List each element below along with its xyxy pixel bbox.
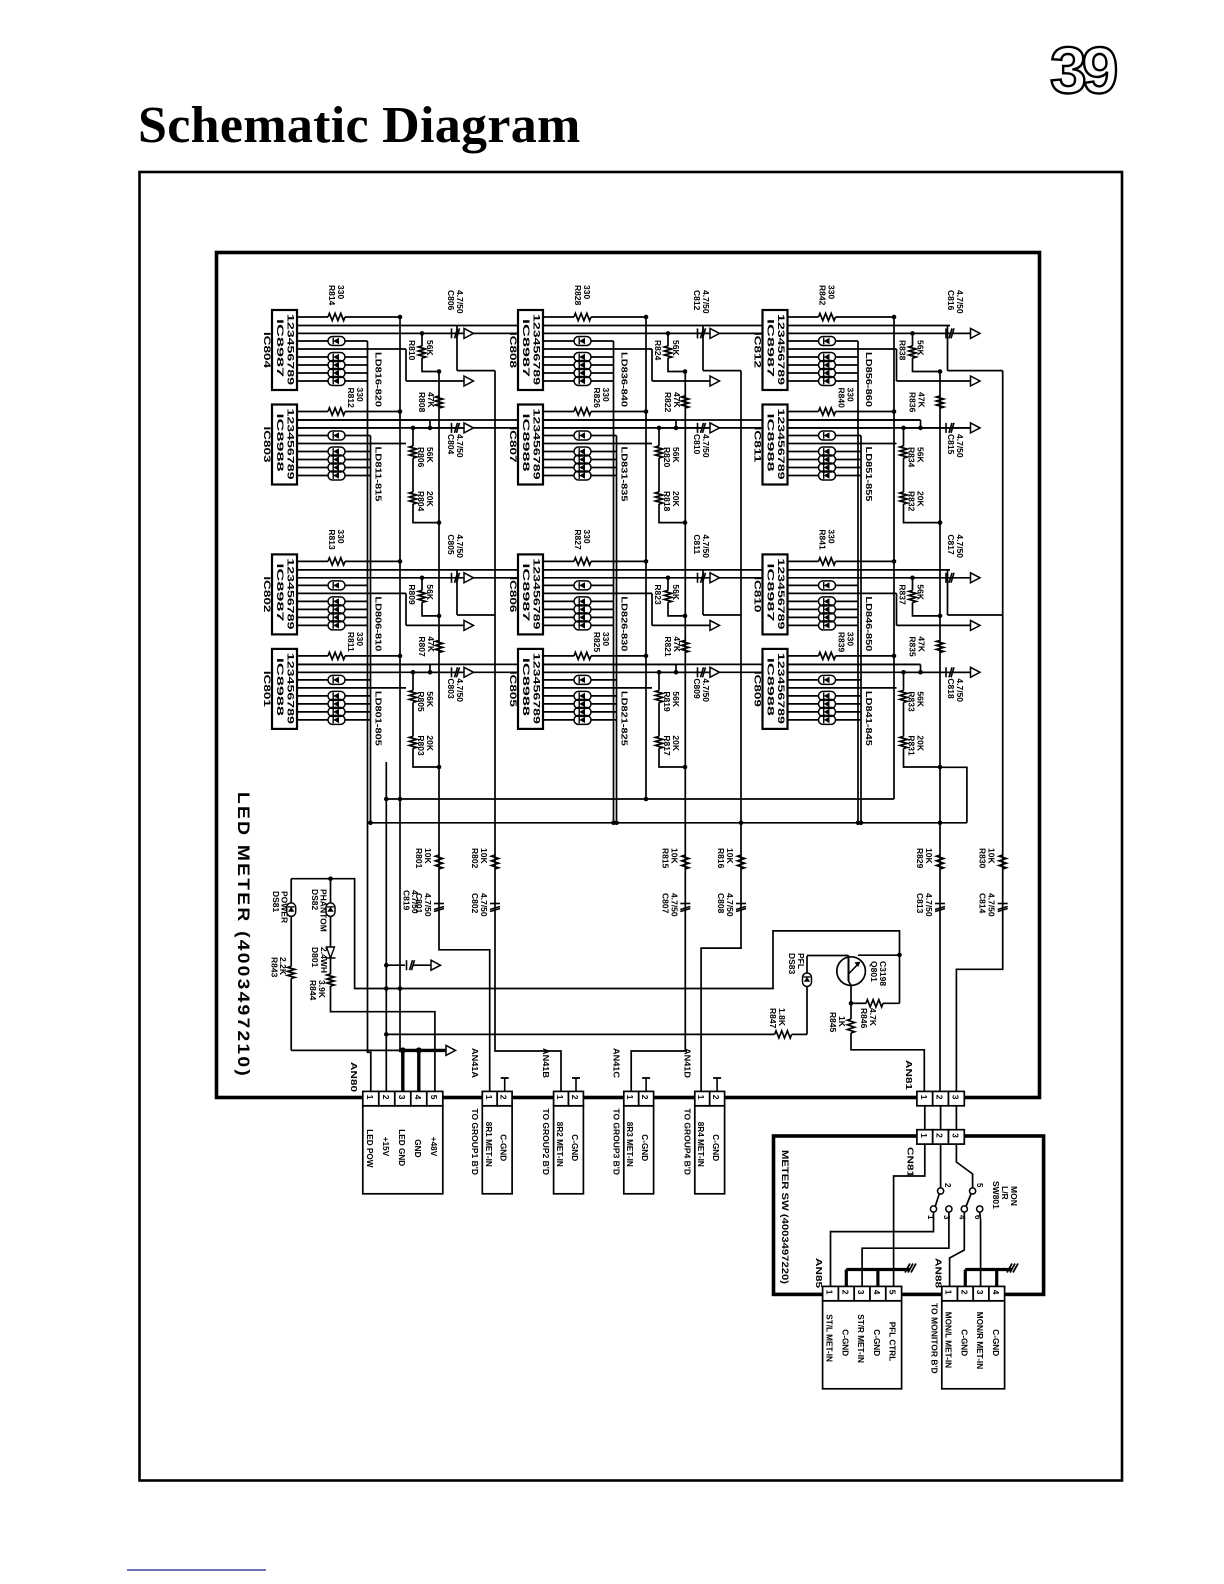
- wire pin2 riser to right bus: [702, 326, 704, 371]
- wire arrow stub mid: [405, 593, 407, 625]
- IC IC810: [753, 554, 788, 634]
- svg-text:D801: D801: [310, 947, 320, 968]
- wire pin3 bottom IC: [297, 427, 400, 429]
- svg-text:C812: C812: [692, 290, 702, 311]
- resistor R808 47K: [435, 396, 442, 408]
- wire pin1 IC806 to bus: [591, 560, 646, 562]
- no-connect stub pin2: [575, 1078, 577, 1091]
- svg-text:2.4WH: 2.4WH: [319, 947, 329, 973]
- svg-text:123456789: 123456789: [776, 653, 786, 724]
- svg-text:123456789: 123456789: [286, 653, 296, 724]
- svg-text:1: 1: [365, 1095, 375, 1100]
- wire pin5: [297, 443, 406, 445]
- resistor R814 330: [297, 316, 328, 318]
- resistor R809 56K: [420, 576, 425, 581]
- wire pin5: [297, 348, 406, 350]
- svg-text:1: 1: [919, 1133, 929, 1138]
- LED LD816: [297, 340, 328, 342]
- svg-text:47K: 47K: [672, 392, 682, 408]
- svg-text:C817: C817: [946, 534, 956, 555]
- resistor R837 56K: [910, 576, 915, 581]
- connector AN85 pins: [823, 1286, 839, 1300]
- svg-text:IC810: IC810: [753, 576, 763, 612]
- IC IC809: [753, 649, 788, 729]
- svg-text:+48V: +48V: [429, 1137, 438, 1157]
- svg-text:TO MONITOR B'D: TO MONITOR B'D: [929, 1303, 939, 1374]
- svg-text:10K: 10K: [924, 848, 934, 864]
- svg-text:56K: 56K: [916, 691, 926, 707]
- svg-text:MON/L MET-IN: MON/L MET-IN: [944, 1312, 953, 1368]
- svg-text:ST/L MET-IN: ST/L MET-IN: [825, 1314, 834, 1362]
- IC IC808: [508, 310, 543, 390]
- resistor R829 10K: [936, 855, 943, 869]
- resistor R841 330: [788, 560, 819, 562]
- capacitor C808 4.7/50: [736, 903, 746, 905]
- svg-text:LD801-805: LD801-805: [374, 691, 384, 746]
- wire bus B col2 to AN41C: [631, 372, 685, 1092]
- svg-text:4.7/50: 4.7/50: [701, 678, 711, 702]
- svg-text:1: 1: [625, 1095, 635, 1100]
- svg-text:3: 3: [397, 1095, 407, 1100]
- wire pin3 bottom IC: [788, 427, 891, 429]
- svg-text:2: 2: [943, 1183, 952, 1188]
- svg-text:R840: R840: [837, 388, 847, 409]
- LED LD826: [543, 584, 574, 586]
- svg-text:C818: C818: [946, 678, 956, 699]
- wire bus B col3 to AN81 pin2: [939, 372, 941, 1092]
- svg-text:C-GND: C-GND: [640, 1134, 649, 1161]
- svg-text:330: 330: [827, 285, 837, 299]
- resistor R825 330: [543, 655, 574, 657]
- LED stack LD831-835: [543, 451, 574, 453]
- svg-text:LD806-810: LD806-810: [374, 596, 384, 651]
- svg-text:123456789: 123456789: [776, 558, 786, 629]
- svg-text:IC801: IC801: [262, 671, 272, 707]
- svg-text:DS82: DS82: [310, 889, 320, 911]
- diode D801 zener 2.4WH: [330, 916, 332, 947]
- svg-text:C-GND: C-GND: [499, 1134, 508, 1161]
- resistor R816 10K: [737, 855, 744, 869]
- resistor R827 330: [543, 560, 574, 562]
- wire bus C col2 to AN41D: [701, 371, 741, 1092]
- svg-text:LED GND: LED GND: [397, 1129, 406, 1166]
- resistor R806 56K: [411, 426, 416, 431]
- capacitor C803 4.7/50: [451, 667, 453, 677]
- svg-text:LD846-850: LD846-850: [864, 596, 874, 651]
- resistor R803 20K: [412, 702, 414, 736]
- svg-text:R846: R846: [859, 1008, 869, 1029]
- svg-text:CN81: CN81: [906, 1147, 916, 1177]
- svg-text:20K: 20K: [671, 735, 681, 751]
- wire pin5: [543, 592, 652, 594]
- svg-text:LD836-840: LD836-840: [620, 352, 630, 407]
- svg-text:C815: C815: [946, 434, 956, 455]
- svg-text:Schematic Diagram: Schematic Diagram: [138, 97, 581, 154]
- svg-text:TO GROUP3 B'D: TO GROUP3 B'D: [611, 1108, 621, 1175]
- resistor R832 20K: [903, 458, 905, 492]
- wire bus2 horizontal: [368, 822, 967, 824]
- svg-text:R801: R801: [414, 848, 424, 869]
- svg-text:IC809: IC809: [753, 671, 763, 707]
- wire pin3 bottom IC: [543, 427, 646, 429]
- svg-text:AN88: AN88: [934, 1258, 944, 1288]
- svg-text:4: 4: [413, 1095, 423, 1100]
- wire mid vertical 386: [385, 762, 387, 1091]
- wire pin2 bus bottom ICs band1: [297, 419, 518, 421]
- capacitor C805 4.7/50: [451, 573, 453, 583]
- svg-text:330: 330: [601, 388, 611, 402]
- wire pin5: [543, 348, 652, 350]
- svg-text:3.9K: 3.9K: [317, 980, 327, 999]
- svg-text:C-GND: C-GND: [711, 1134, 720, 1161]
- LED DS81 POWER: [290, 879, 292, 903]
- wire CN81 pin3 to SW801: [956, 1144, 972, 1188]
- svg-text:PHANTOM: PHANTOM: [319, 889, 329, 932]
- svg-text:R824: R824: [653, 340, 663, 361]
- connector AN88 body: [942, 1301, 1005, 1389]
- IC IC812: [753, 310, 788, 390]
- resistor R823 56K: [666, 576, 671, 581]
- svg-text:2: 2: [570, 1095, 580, 1100]
- LED stack LD846-850: [788, 600, 819, 602]
- svg-text:R802: R802: [470, 848, 480, 869]
- svg-text:AN85: AN85: [814, 1258, 824, 1288]
- resistor R833 56K: [901, 670, 906, 675]
- capacitor C802 4.7/50: [490, 903, 500, 905]
- wire pin1 IC801 to bus: [345, 655, 400, 657]
- LED LD841: [788, 679, 819, 681]
- resistor R840 330: [788, 411, 819, 413]
- svg-text:IC804: IC804: [262, 332, 272, 368]
- LED stack LD806-810: [297, 600, 328, 602]
- resistor R815 10K: [682, 855, 689, 869]
- wire SW801-4 to AN88 pin1: [950, 1212, 965, 1286]
- svg-text:C813: C813: [915, 893, 925, 914]
- LED LD846: [788, 584, 819, 586]
- wire CN81 pin2 to SW801: [940, 1144, 942, 1188]
- svg-text:C3198: C3198: [878, 961, 888, 986]
- wire pin3 bottom IC: [788, 671, 891, 673]
- wire arrow stub mid: [405, 349, 407, 381]
- resistor R838 56K: [910, 331, 915, 336]
- resistor R826 330: [543, 411, 574, 413]
- svg-text:R823: R823: [653, 584, 663, 605]
- svg-text:8R2 MET-IN: 8R2 MET-IN: [555, 1122, 564, 1167]
- svg-text:56K: 56K: [671, 584, 681, 600]
- svg-text:20K: 20K: [425, 491, 435, 507]
- wire bus C col3 to AN81 pin3: [956, 371, 1002, 1092]
- svg-text:2: 2: [640, 1095, 650, 1100]
- svg-text:10K: 10K: [725, 848, 735, 864]
- LED stack LD821-825: [543, 695, 574, 697]
- wire pin1 IC812 to bus: [836, 316, 895, 318]
- svg-text:IC8988: IC8988: [275, 658, 285, 716]
- wire emitter to AN81 pin1: [851, 1033, 924, 1091]
- wire CN81 pin1 to AN85 pin5: [894, 1144, 925, 1286]
- svg-text:PFL: PFL: [796, 953, 806, 969]
- LED stack LD801-805: [297, 695, 328, 697]
- wire pin1 IC807 to bus: [591, 411, 646, 413]
- wire pin2 bus top ICs band1: [297, 325, 518, 327]
- wire pin1 IC809 to bus: [836, 655, 895, 657]
- svg-text:10K: 10K: [669, 848, 679, 864]
- IC IC802: [262, 554, 297, 634]
- svg-text:R816: R816: [716, 848, 726, 869]
- connector AN81 pins: [917, 1091, 933, 1105]
- svg-text:R810: R810: [407, 340, 417, 361]
- resistor R811 330: [297, 655, 328, 657]
- capacitor C814 4.7/50: [998, 903, 1008, 905]
- LED stack LD851-855: [788, 451, 819, 453]
- svg-text:4.7/50: 4.7/50: [955, 678, 965, 702]
- LED LD831: [543, 435, 574, 437]
- svg-text:4: 4: [872, 1290, 882, 1295]
- svg-text:R830: R830: [978, 848, 988, 869]
- svg-text:R821: R821: [663, 636, 673, 657]
- wire pin3 bus bottom ICs band1: [297, 427, 518, 429]
- LED stack LD856-860: [788, 356, 819, 358]
- svg-text:47K: 47K: [917, 392, 927, 408]
- LED LD836: [543, 340, 574, 342]
- svg-text:Q801: Q801: [869, 961, 879, 982]
- wire arrow stub mid: [896, 349, 898, 381]
- LED LD856: [788, 340, 819, 342]
- svg-text:MON/R MET-IN: MON/R MET-IN: [975, 1312, 984, 1369]
- svg-text:R841: R841: [818, 529, 828, 550]
- svg-text:56K: 56K: [671, 447, 681, 463]
- capacitor C807 4.7/50: [680, 903, 690, 905]
- svg-text:R835: R835: [908, 636, 918, 657]
- wire pin1 IC811 to bus: [836, 411, 895, 413]
- no-connect stub pin2: [716, 1078, 718, 1091]
- svg-text:AN41C: AN41C: [611, 1048, 621, 1078]
- svg-text:330: 330: [355, 388, 365, 402]
- svg-text:C810: C810: [692, 434, 702, 455]
- svg-text:56K: 56K: [916, 584, 926, 600]
- svg-text:R811: R811: [346, 632, 356, 652]
- svg-text:IC8988: IC8988: [766, 658, 776, 716]
- svg-text:R842: R842: [818, 285, 828, 306]
- svg-text:1: 1: [555, 1095, 565, 1100]
- wire pin1 IC804 to bus: [345, 316, 400, 318]
- wire pin5: [788, 443, 897, 445]
- meter SW board box: [774, 1136, 1044, 1294]
- resistor R804 20K: [412, 458, 414, 492]
- wire pin2 riser to right bus: [456, 570, 458, 615]
- resistor R830 10K: [999, 855, 1006, 869]
- svg-text:LED POW: LED POW: [365, 1129, 374, 1167]
- resistor R834 56K: [901, 426, 906, 431]
- resistor R817 20K: [658, 702, 660, 736]
- svg-text:AN41A: AN41A: [470, 1048, 480, 1078]
- connector AN41C body: [624, 1106, 654, 1194]
- svg-text:AN81: AN81: [904, 1060, 914, 1090]
- svg-text:R827: R827: [573, 529, 583, 550]
- svg-text:4.7K: 4.7K: [868, 1008, 878, 1027]
- svg-text:123456789: 123456789: [532, 653, 542, 724]
- svg-text:330: 330: [827, 529, 837, 543]
- svg-text:IC8988: IC8988: [521, 658, 531, 716]
- LED LD801: [297, 679, 328, 681]
- wire pin5: [788, 687, 897, 689]
- capacitor C818 4.7/50: [945, 667, 947, 677]
- wire pin1 bus col2: [645, 317, 647, 799]
- wire pin5: [543, 443, 652, 445]
- resistor R839 330: [788, 655, 819, 657]
- svg-text:LD821-825: LD821-825: [620, 691, 630, 746]
- LED LD811: [297, 435, 328, 437]
- svg-text:330: 330: [336, 285, 346, 299]
- svg-text:4.7/50: 4.7/50: [987, 893, 997, 917]
- svg-text:4.7/50: 4.7/50: [955, 290, 965, 314]
- resistor R812 330: [297, 411, 328, 413]
- resistor R819 56K: [657, 670, 662, 675]
- svg-text:2: 2: [959, 1290, 969, 1295]
- svg-text:C-GND: C-GND: [570, 1134, 579, 1161]
- connector AN85 body: [823, 1301, 902, 1389]
- wire LED cathode bus col1b: [370, 436, 372, 823]
- svg-text:20K: 20K: [916, 735, 926, 751]
- IC IC804: [262, 310, 297, 390]
- svg-text:330: 330: [846, 632, 856, 646]
- svg-text:LD841-845: LD841-845: [864, 691, 874, 746]
- svg-text:8R4 MET-IN: 8R4 MET-IN: [696, 1122, 705, 1167]
- capacitor C809 4.7/50: [697, 667, 699, 677]
- svg-text:1.8K: 1.8K: [777, 1008, 787, 1027]
- svg-text:4.7/50: 4.7/50: [423, 893, 433, 917]
- wire bus 988: [291, 879, 899, 989]
- svg-text:20K: 20K: [671, 491, 681, 507]
- svg-text:ST/R MET-IN: ST/R MET-IN: [856, 1314, 865, 1363]
- capacitor C816 4.7/50: [945, 328, 947, 338]
- capacitor C813 4.7/50: [935, 903, 945, 905]
- svg-text:R808: R808: [417, 392, 427, 413]
- IC IC803: [262, 405, 297, 485]
- svg-text:R818: R818: [662, 491, 672, 512]
- wire pin2 bottom IC: [543, 663, 676, 665]
- svg-text:IC8987: IC8987: [275, 319, 285, 377]
- LED DS83 PFL: [806, 956, 808, 973]
- wire bus C col1 to AN41B: [495, 371, 561, 1092]
- resistor R842 330: [788, 316, 819, 318]
- switch SW801 L/R MON: [926, 1181, 1019, 1220]
- svg-text:56K: 56K: [916, 447, 926, 463]
- svg-text:4.7/50: 4.7/50: [701, 290, 711, 314]
- wire bus2 right riser: [940, 767, 967, 823]
- svg-text:IC8988: IC8988: [766, 414, 776, 472]
- svg-text:56K: 56K: [425, 691, 435, 707]
- svg-text:C-GND: C-GND: [872, 1329, 881, 1356]
- svg-text:R804: R804: [416, 491, 426, 512]
- resistor R820 56K: [657, 426, 662, 431]
- svg-text:2: 2: [381, 1095, 391, 1100]
- svg-text:R839: R839: [837, 632, 847, 653]
- connector AN41B pins: [554, 1091, 569, 1105]
- LED stack LD816-820: [297, 356, 328, 358]
- resistor R836 47K: [936, 396, 943, 408]
- svg-text:56K: 56K: [425, 584, 435, 600]
- LED stack LD841-845: [788, 695, 819, 697]
- wire pin2 bottom IC: [788, 419, 921, 421]
- connector AN41A pins: [482, 1091, 497, 1105]
- wire pin1 IC802 to bus: [345, 560, 400, 562]
- svg-text:R805: R805: [416, 691, 426, 712]
- svg-text:330: 330: [336, 529, 346, 543]
- svg-text:R837: R837: [898, 584, 908, 605]
- wire pin2 riser to right bus: [947, 326, 949, 371]
- svg-text:IC8988: IC8988: [521, 414, 531, 472]
- svg-text:4.7/50: 4.7/50: [455, 678, 465, 702]
- svg-text:R809: R809: [407, 584, 417, 605]
- svg-text:4.7/50: 4.7/50: [955, 434, 965, 458]
- wire pin2 riser to right bus: [456, 326, 458, 371]
- svg-text:C816: C816: [946, 290, 956, 311]
- svg-text:IC8987: IC8987: [275, 563, 285, 621]
- capacitor C817 4.7/50: [945, 573, 947, 583]
- svg-text:AN80: AN80: [349, 1062, 359, 1092]
- svg-text:330: 330: [355, 632, 365, 646]
- svg-text:METER SW (4003497220): METER SW (4003497220): [780, 1150, 790, 1284]
- svg-text:IC812: IC812: [753, 332, 763, 368]
- svg-text:C806: C806: [446, 290, 456, 311]
- svg-text:LD811-815: LD811-815: [374, 447, 384, 502]
- wire pin1 IC805 to bus: [591, 655, 646, 657]
- resistor R802 10K: [491, 855, 498, 869]
- svg-text:4.7/50: 4.7/50: [455, 534, 465, 558]
- wire DS81 to LED GND bar: [290, 978, 292, 1050]
- svg-text:DS81: DS81: [271, 891, 281, 913]
- wire pin2 riser to right bus: [702, 570, 704, 615]
- svg-text:PFL CTRL: PFL CTRL: [888, 1322, 897, 1361]
- svg-text:IC803: IC803: [262, 427, 272, 463]
- wire pin3 bottom IC: [297, 671, 400, 673]
- svg-text:2: 2: [711, 1095, 721, 1100]
- svg-text:R812: R812: [346, 388, 356, 409]
- outer border frame: [140, 172, 1123, 1481]
- wire pin1 IC803 to bus: [345, 411, 400, 413]
- wire pin5: [297, 687, 406, 689]
- svg-text:SW801: SW801: [991, 1181, 1001, 1209]
- IC IC807: [508, 405, 543, 485]
- svg-text:LED METER (4003497210): LED METER (4003497210): [234, 792, 253, 1078]
- svg-text:+15V: +15V: [381, 1137, 390, 1157]
- svg-text:C814: C814: [978, 893, 988, 914]
- capacitor C804 4.7/50: [451, 423, 453, 433]
- wire pin3 bus bottom ICs band2: [297, 671, 518, 673]
- connector CN81 pins: [917, 1130, 933, 1144]
- svg-text:4.7/50: 4.7/50: [701, 534, 711, 558]
- ground bus AN85: [846, 1268, 910, 1271]
- wire LED cathode bus col1: [368, 341, 371, 1091]
- svg-text:10K: 10K: [423, 848, 433, 864]
- svg-text:56K: 56K: [671, 340, 681, 356]
- resistor R835 47K: [936, 640, 943, 652]
- LED stack LD826-830: [543, 600, 574, 602]
- svg-text:5: 5: [429, 1095, 439, 1100]
- svg-text:IC8987: IC8987: [521, 563, 531, 621]
- svg-text:47K: 47K: [426, 392, 436, 408]
- svg-text:R819: R819: [662, 691, 672, 712]
- capacitor C801 4.7/50: [434, 903, 444, 905]
- svg-text:LD816-820: LD816-820: [374, 352, 384, 407]
- svg-text:123456789: 123456789: [286, 314, 296, 385]
- svg-text:123456789: 123456789: [776, 314, 786, 385]
- svg-text:8R1 MET-IN: 8R1 MET-IN: [484, 1122, 493, 1167]
- svg-text:123456789: 123456789: [776, 409, 786, 480]
- svg-text:3: 3: [856, 1290, 866, 1295]
- svg-text:330: 330: [582, 285, 592, 299]
- svg-text:R817: R817: [662, 735, 672, 756]
